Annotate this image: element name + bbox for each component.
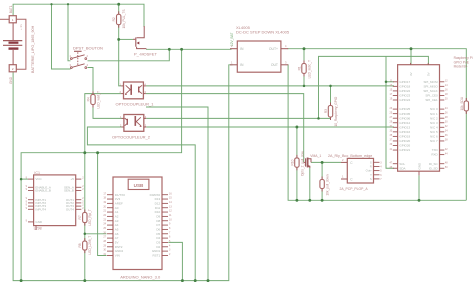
svg-text:OPTOCOUPLEUR_2: OPTOCOUPLEUR_2 [112,135,151,140]
svg-text:2A_Rly_Bco_Bottom_edge: 2A_Rly_Bco_Bottom_edge [328,154,372,158]
svg-text:GPIO22: GPIO22 [399,89,410,93]
svg-text:BATTERIE_LIPO_1865_90H: BATTERIE_LIPO_1865_90H [31,25,35,73]
svg-text:INPUT4: INPUT4 [35,207,46,211]
svg-text:GPIO24: GPIO24 [399,98,410,102]
svg-text:12V_BAT: 12V_BAT [230,33,234,46]
svg-text:DPST_BOUTON: DPST_BOUTON [73,46,103,51]
svg-text:GPIO25: GPIO25 [399,107,410,111]
svg-text:L298: L298 [34,227,42,231]
svg-text:DC-DC STEP DOWN XL4005: DC-DC STEP DOWN XL4005 [236,30,290,35]
svg-text:N/C 7: N/C 7 [430,139,438,143]
svg-text:SPI_CE1: SPI_CE1 [425,98,438,102]
svg-text:OPTOCOUPLEUR_1: OPTOCOUPLEUR_1 [116,101,155,106]
svg-text:R4: R4 [86,97,90,101]
svg-text:GPIO06: GPIO06 [399,116,410,120]
svg-text:GPIO26: GPIO26 [399,144,410,148]
svg-text:OUT4: OUT4 [66,207,74,211]
svg-text:LED_Rpi_T: LED_Rpi_T [88,209,92,226]
svg-text:N/C 6: N/C 6 [430,135,438,139]
svg-text:N/C 4: N/C 4 [430,125,438,129]
svg-text:OUT+: OUT+ [269,47,278,51]
svg-text:LED_wait_T: LED_wait_T [96,91,100,108]
svg-text:10_Raspberry_GPIO: 10_Raspberry_GPIO [334,96,338,126]
svg-text:R10: R10 [290,159,294,165]
svg-text:P_-MOSFET: P_-MOSFET [134,51,157,56]
svg-text:3V: 3V [409,72,413,76]
svg-text:R7: R7 [78,215,82,219]
svg-text:IN: IN [240,63,244,67]
svg-text:10k_SDA: 10k_SDA [460,96,464,110]
svg-text:GND: GND [9,76,13,84]
svg-text:LED_L298_T: LED_L298_T [88,236,92,255]
svg-text:N/C 2: N/C 2 [430,116,438,120]
svg-text:+ 1n: + 1n [19,24,23,30]
svg-text:SEN_B: SEN_B [64,189,74,193]
svg-text:IN: IN [240,47,244,51]
svg-text:GND: GND [35,220,43,224]
svg-text:GND: GND [418,162,422,170]
svg-text:GPIO05: GPIO05 [399,112,410,116]
svg-text:GPIO20: GPIO20 [399,139,410,143]
svg-text:SCL: SCL [399,162,405,166]
svg-text:IC1: IC1 [34,171,40,175]
svg-text:GPIO21: GPIO21 [399,148,410,152]
svg-text:ARDUINO_NANO_3.0: ARDUINO_NANO_3.0 [120,275,161,280]
svg-text:GPIO23: GPIO23 [399,94,410,98]
svg-text:R2: R2 [112,17,116,21]
svg-text:+5: +5 [70,177,74,181]
svg-text:TXD: TXD [432,148,439,152]
svg-text:SPI_MISO: SPI_MISO [424,84,439,88]
svg-text:GPIO17: GPIO17 [399,80,410,84]
svg-text:RXD: RXD [431,153,438,157]
svg-text:GPIO12: GPIO12 [399,121,410,125]
svg-text:ID_SD: ID_SD [429,166,439,170]
svg-text:GPIO19: GPIO19 [399,135,410,139]
svg-text:GPIO18: GPIO18 [399,84,410,88]
svg-text:R1: R1 [297,66,301,70]
svg-text:GPIO16: GPIO16 [399,130,410,134]
svg-text:SDA: SDA [399,166,405,170]
svg-text:Model B+: Model B+ [454,65,468,69]
svg-text:N/C 1: N/C 1 [430,112,438,116]
svg-text:R3: R3 [324,109,328,113]
svg-text:SPI_SCLK: SPI_SCLK [423,89,437,93]
svg-text:GPIO13: GPIO13 [399,125,410,129]
svg-text:N/C 3: N/C 3 [430,121,438,125]
svg-text:N/C 5: N/C 5 [430,130,438,134]
svg-text:SPI_CE0: SPI_CE0 [425,94,438,98]
svg-text:ENABLE_B: ENABLE_B [35,189,51,193]
svg-text:S: S [370,177,372,181]
svg-text:VMA_1: VMA_1 [310,154,321,158]
svg-text:VIN: VIN [115,254,120,258]
svg-text:SPI_MOSI: SPI_MOSI [424,80,438,84]
svg-text:Opto_2_pull_dow: Opto_2_pull_dow [300,151,304,177]
svg-text:LED_indic_T: LED_indic_T [307,60,311,78]
svg-text:5V: 5V [427,72,431,76]
svg-text:RST1: RST1 [153,254,161,258]
svg-text:2A_PCP_PLOP_A: 2A_PCP_PLOP_A [340,187,369,191]
svg-text:N/C 0: N/C 0 [430,107,438,111]
svg-text:VCC: VCC [35,177,42,181]
svg-text:OUT: OUT [271,63,278,67]
svg-text:BAT1: BAT1 [9,5,13,13]
svg-text:ID_SC: ID_SC [429,162,439,166]
svg-text:USB: USB [134,183,144,188]
svg-text:R8: R8 [78,243,82,247]
svg-text:10k_pull_down: 10k_pull_down [326,174,330,195]
svg-text:10k_PUL_TS: 10k_PUL_TS [122,9,126,28]
